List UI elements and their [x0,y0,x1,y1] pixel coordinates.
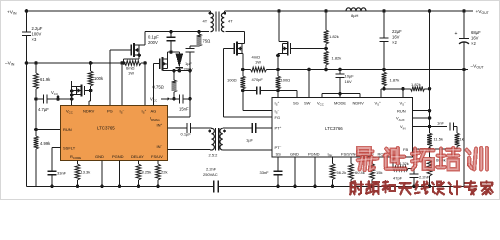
wire PGND 3766 [313,157,317,188]
svg-text:2.2nF: 2.2nF [419,175,430,180]
svg-text:RUN: RUN [63,127,72,132]
svg-text:DELAY: DELAY [131,154,144,159]
svg-text:4.99k: 4.99k [40,141,51,146]
capacitor 2.2uF input [22,26,43,42]
wire SSFLT to 33nF [52,148,60,172]
svg-text:LTC3765: LTC3765 [97,126,115,131]
svg-text:100Ω: 100Ω [227,78,237,83]
wire M1 source [122,55,139,65]
resistor 4.32k ITH [393,157,414,171]
svg-text:4.7µF: 4.7µF [38,107,49,112]
wire M2 source rail [163,69,192,73]
wire bottom rail secondary [218,185,464,187]
svg-text:SS: SS [276,151,282,156]
capacitor 15nF [170,94,192,111]
svg-text:1µF: 1µF [246,138,254,143]
capacitor 0.1uF gate drive [168,123,210,137]
wire VAUX 3766 [413,117,430,119]
svg-text:4T: 4T [203,19,208,24]
svg-text:2.2nF: 2.2nF [206,167,217,172]
wire clamp node [168,50,180,54]
wire IS- pin [120,61,124,105]
svg-text:RUN: RUN [397,108,406,113]
op-amp U2 LTC3766 controller [272,98,413,158]
capacitor 68uF 16V x2 [455,9,482,71]
wire T1 sec bottom [226,32,245,44]
wire VCC MODE NDRV tie [322,92,360,98]
svg-text:1µF: 1µF [185,61,193,66]
svg-text:100Ω: 100Ω [281,78,291,83]
svg-text:15nF: 15nF [179,107,189,112]
wire IDMAG pin [168,116,191,118]
svg-text:SG: SG [293,101,299,106]
svg-text:8.25k: 8.25k [142,170,152,175]
svg-text:16V: 16V [345,79,352,84]
transistor M1 main switch [131,43,141,57]
wire SG pin [278,91,297,98]
wire SW pin [307,68,311,98]
transformer T2 secondary 2T [209,128,226,157]
wire primary switch node [145,31,209,33]
resistor 22k [156,161,168,189]
wire T1 pri bottom [208,31,210,33]
wire GND 3765 [100,161,104,189]
resistor 15k [370,157,383,188]
resistor 4m sense [243,55,278,72]
wire GND 3766 [293,157,297,188]
op-amp U1 LTC3765 controller [60,105,167,160]
resistor 8.25k [136,161,151,189]
transistor M4 catch fet [283,42,291,56]
svg-text:SSFLT: SSFLT [63,145,76,150]
svg-text:33nF: 33nF [260,170,270,175]
svg-text:15k: 15k [376,170,382,175]
wire left input rail [26,11,28,186]
svg-text:FB: FB [403,147,408,152]
capacitor 2.2nF 250VAC isolation [203,167,218,193]
svg-text:2.5:2: 2.5:2 [209,153,219,158]
svg-text:4T: 4T [228,19,233,24]
wire T2 sec bottom to PT- [223,149,272,151]
wire IS- 3766 [243,91,272,111]
svg-text:0.1µF: 0.1µF [148,35,159,40]
svg-text:FS/UV: FS/UV [151,154,163,159]
node -VIN input terminal [5,61,28,67]
svg-text:1.82k: 1.82k [329,34,339,39]
capacitor 1uF PT coupling [223,123,272,143]
wire M4 drain [277,9,288,41]
svg-text:AG: AG [151,109,157,114]
wire -VIN rail [27,62,124,64]
capacitor 10uF 16V [336,68,355,98]
svg-text:2.2µF: 2.2µF [32,26,43,31]
capacitor 470pF [243,77,278,95]
wire M3 gate to FG [224,49,272,118]
wire M3 source [241,54,245,72]
wire Q2 gate to 100k [84,89,92,93]
wire 100k node to NDRV [89,91,91,106]
transformer T1 primary winding 4T [203,11,214,32]
resistor 100 right [276,70,291,93]
svg-text:61.9k: 61.9k [40,77,51,82]
resistor 100 left [227,70,245,93]
svg-text:NDRV: NDRV [353,101,365,106]
svg-text:47pF: 47pF [393,176,403,181]
resistor 1.82k lower [324,49,342,72]
wire M3 drain [242,42,244,44]
resistor 4.99k [34,130,52,187]
svg-text:8µH: 8µH [351,13,359,18]
node -VOUT terminal [464,64,485,70]
capacitor 0.1uF 200V clamp [148,30,176,52]
resistor 1.82k fb [384,82,431,91]
transistor Q2 NDRV nfet [72,85,85,97]
svg-text:68µF: 68µF [471,30,481,35]
node VCC mid label [150,97,170,103]
svg-text:1.82k: 1.82k [411,82,421,87]
resistor 60.4k fb bottom [427,149,446,188]
svg-text:0.1µF: 0.1µF [181,132,192,137]
resistor 56.2k [330,157,346,188]
resistor 0.75 [153,69,177,99]
wire VS- pin [401,87,405,98]
wire AG to M2 gate [154,64,160,106]
wire VCC pin column [70,81,74,105]
svg-text:GND: GND [95,154,104,159]
capacitor 1nF [437,121,457,131]
resistor 100k [88,61,104,90]
inductor 8uH [346,8,366,18]
svg-text:+: + [455,31,458,37]
wire RUN 3766 [413,110,430,112]
wire right column [428,9,432,133]
capacitor 4.7uF [36,95,71,113]
transformer T2 core [216,128,219,150]
transistor M3 forward fet [234,42,242,56]
svg-text:PGND: PGND [308,151,320,156]
wire M1 drain [139,32,145,45]
transistor M2 clamp pfet [160,52,168,71]
svg-text:LTC3766: LTC3766 [325,126,343,131]
svg-text:NDRV: NDRV [83,109,95,114]
resistor 11.5k [427,133,443,151]
wire VIN 3766 [413,125,448,129]
wire bottom rail primary [27,185,214,187]
wire top rail primary [27,10,210,12]
wire FB pin [413,148,458,150]
capacitor 33nF primary [48,171,67,189]
svg-text:SW: SW [304,101,311,106]
svg-text:22µF: 22µF [392,29,402,34]
svg-text:33nF: 33nF [57,171,67,176]
svg-text:MODE: MODE [334,101,346,106]
watermark text [350,148,493,194]
resistor 1.87k [382,70,400,91]
wire clamp descend [189,71,191,117]
capacitor 33nF secondary [260,157,283,188]
wire VS+ pin [381,89,384,98]
node VCC label left [51,90,60,101]
svg-text:×3: ×3 [32,37,37,42]
svg-text:PG: PG [107,109,113,114]
svg-text:PGND: PGND [112,154,124,159]
svg-text:10µF: 10µF [345,74,355,79]
svg-text:13.3k: 13.3k [81,170,91,175]
wire -VOUT to bottom rail [463,70,465,187]
svg-text:FG: FG [275,115,281,120]
svg-text:1.87k: 1.87k [390,78,400,83]
capacitor 22uF 16V x2 [380,9,403,71]
node +VOUT terminal [476,9,490,15]
svg-text:1W: 1W [255,60,261,65]
svg-text:22k: 22k [161,170,167,175]
svg-text:4.32k: 4.32k [399,161,409,166]
svg-text:16V: 16V [471,35,479,40]
capacitor 47pF ITH [393,169,430,189]
wire output rail [278,69,468,71]
svg-text:16V: 16V [392,34,400,39]
svg-text:GND: GND [290,151,299,156]
svg-text:75Ω: 75Ω [203,39,211,44]
svg-text:1.82k: 1.82k [332,56,342,61]
wire IS+ 3766 [277,91,279,98]
wire M4 gate to divider [291,47,328,51]
svg-text:11.5k: 11.5k [434,137,444,142]
svg-text:1k: 1k [460,137,464,142]
svg-text:FS/SYNC: FS/SYNC [341,151,358,156]
svg-text:250VAC: 250VAC [203,172,218,177]
wire 6m to IS+ [141,61,147,65]
svg-text:470pF: 470pF [252,77,264,82]
wire T1 sec top to rail [226,10,473,12]
wire IS+ pin [144,63,146,105]
wire PGND 3765 [118,161,122,189]
wire chain to RUN [34,97,38,131]
wire RUN pin [36,129,60,131]
svg-text:0.75Ω: 0.75Ω [153,85,164,90]
svg-text:1nF: 1nF [437,121,444,126]
svg-text:100V: 100V [32,32,42,37]
capacitor 1uF 200V [184,46,195,71]
svg-text:1W: 1W [128,71,134,76]
resistor 60.4k [349,157,365,188]
resistor 6m sense [125,61,142,76]
wire M4 source [276,54,282,72]
svg-text:200V: 200V [148,40,158,45]
resistor 1.82k upper [324,9,339,48]
diode Z1 zener [176,52,184,71]
svg-text:100k: 100k [94,76,104,81]
resistor 13.3k [75,161,90,189]
transformer T1 secondary winding 4T [221,11,233,32]
resistor 61.9k [34,61,52,99]
svg-text:56.2k: 56.2k [337,170,347,175]
svg-text:×2: ×2 [471,41,476,46]
transformer T2 primary 2.5T [208,128,214,150]
wire IN- to T2 [168,149,212,152]
node +VIN input terminal [7,9,28,15]
resistor 75 [190,30,210,46]
transformer T1 core [216,12,219,32]
svg-text:×2: ×2 [392,40,397,45]
resistor 1k [455,127,464,150]
wire PG to M1 gate [110,50,131,105]
